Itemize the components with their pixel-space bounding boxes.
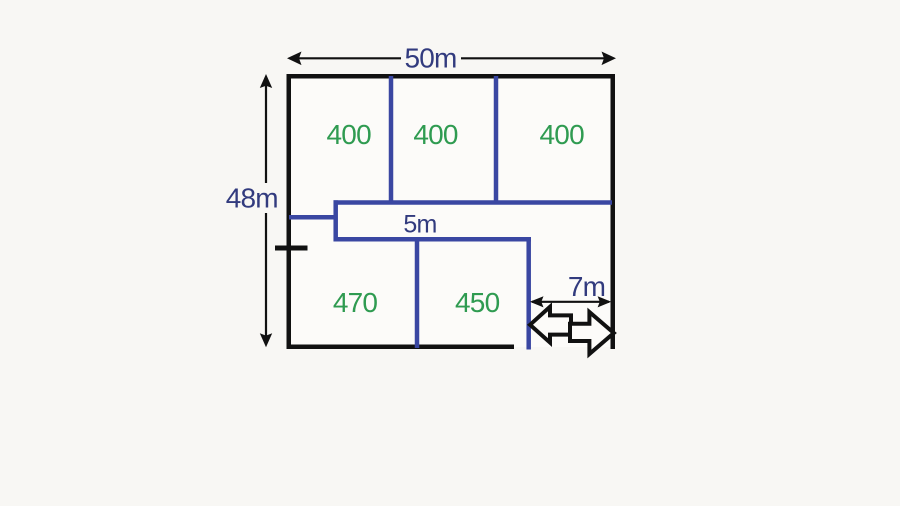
svg-text:400: 400 [327, 119, 372, 150]
dimension arrow 50m line left segment [290, 57, 401, 59]
stub wall from left outer wall to corridor [289, 215, 334, 220]
svg-text:470: 470 [333, 287, 378, 318]
arrowhead right of 7m [598, 296, 612, 307]
dimension arrow 7m line [532, 301, 609, 303]
corridor bottom wall [334, 237, 532, 242]
dimension arrow 48m upper segment [265, 78, 267, 183]
entrance block arrow pointing right [570, 312, 614, 354]
arrowhead left of 50m [287, 52, 302, 66]
outer wall top [287, 74, 616, 79]
interior wall divider between second and third 400 rooms [494, 76, 499, 203]
arrowhead left of 7m [530, 296, 544, 307]
outer wall bottom (ends at entrance gap) [287, 345, 515, 350]
svg-text:48m: 48m [226, 183, 278, 214]
floor interior [289, 76, 613, 347]
svg-text:400: 400 [540, 119, 585, 150]
svg-text:50m: 50m [404, 43, 456, 74]
entrance side wall (right edge of room 450) [526, 237, 531, 349]
entrance block arrow pointing left [530, 307, 571, 343]
arrowhead bottom of 48m [260, 333, 272, 347]
interior wall divider between rooms 470 and 450 [415, 239, 420, 348]
dimension arrow 48m lower segment [265, 213, 267, 343]
tick mark on left outer wall [275, 246, 308, 251]
outer wall left [287, 74, 292, 349]
arrowhead right of 50m [602, 52, 617, 66]
dimension arrow 50m line right segment [461, 57, 611, 59]
corridor left end wall [333, 200, 338, 241]
svg-text:400: 400 [413, 119, 458, 150]
outer wall right [611, 74, 616, 349]
corridor top wall [334, 200, 613, 205]
svg-text:5m: 5m [403, 211, 436, 239]
arrowhead top of 48m [260, 74, 272, 88]
svg-text:450: 450 [455, 287, 500, 318]
interior wall divider between first and second 400 rooms [389, 76, 394, 203]
